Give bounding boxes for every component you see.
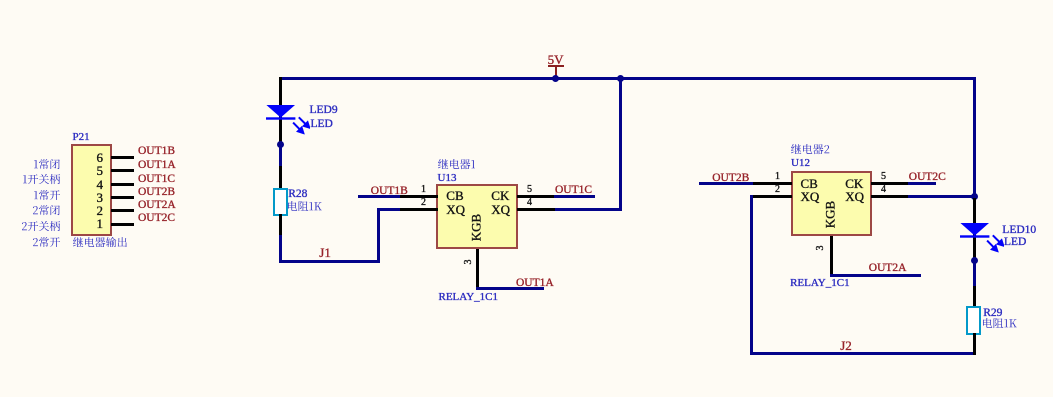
port 1常闭	[34, 159, 60, 170]
U12 comment 继电器2	[791, 144, 830, 155]
U12 pin name XQ right	[845, 190, 864, 203]
U12 pin 2 lead	[753, 195, 791, 198]
junction node rail-U13pin4	[617, 75, 624, 82]
relay U12 body	[791, 171, 872, 236]
wire net OUT2A	[830, 274, 922, 277]
net label 5V	[548, 53, 564, 66]
P21 pin 5 lead	[111, 169, 134, 172]
U12 pin 4 lead	[871, 195, 908, 198]
P21 comment 继电器输出	[73, 237, 127, 248]
R28 pin 2 lead	[279, 214, 282, 237]
P21 pin 2 number	[43, 204, 103, 217]
P21 pin 4 number	[43, 178, 103, 191]
U13 pin 5 number	[472, 185, 532, 195]
P21 pin 4 lead	[111, 183, 134, 186]
net J2 label	[840, 339, 852, 352]
wire net OUT1B	[358, 195, 401, 198]
wire LED9 to R28	[279, 146, 282, 167]
net label OUT2B	[712, 173, 749, 185]
U12 pin name KGB	[823, 192, 836, 238]
U13 pin 2 number	[366, 198, 426, 208]
wire R28 down	[279, 235, 282, 263]
resistor R28	[273, 188, 288, 217]
R28 designator	[288, 189, 307, 201]
LED10 designator	[1002, 225, 1036, 237]
port 1开关柄	[23, 174, 61, 185]
wire LED10 to R29	[973, 262, 976, 288]
U12 pin 2 number	[720, 185, 780, 195]
junction at 5V	[552, 75, 559, 82]
U13 pin name CK	[491, 189, 509, 202]
wire rail to U13 pin4 vertical	[619, 77, 622, 211]
P21 pin 6 lead	[111, 156, 134, 159]
U12 pin 5 number	[826, 172, 886, 182]
R29 pin 2 lead	[973, 333, 976, 355]
wire net OUT2C	[908, 182, 936, 185]
wire J1 horizontal	[279, 260, 380, 263]
relay U13 body	[436, 184, 517, 250]
connector P21 body	[71, 144, 112, 236]
U13 pin name CB	[446, 189, 463, 202]
P21 pin 1 lead	[111, 223, 134, 226]
wire net OUT1A	[476, 287, 544, 290]
R29 value 电阻1K	[983, 318, 1017, 329]
U13 designator	[438, 173, 457, 184]
P21 pin 3 number	[43, 191, 103, 204]
net label OUT1A at P21	[138, 160, 176, 172]
U13 pin 4 number	[472, 198, 532, 208]
U12 pin 1 number	[720, 172, 780, 182]
net label OUT2A at P21	[138, 200, 176, 212]
junction U12 pin4 node	[971, 193, 978, 200]
net label OUT2C	[909, 172, 946, 184]
U13 comment 继电器1	[438, 159, 476, 170]
net label OUT1C at P21	[138, 174, 175, 186]
U13 pin name XQ left	[446, 203, 465, 216]
U13 pin 1 number	[366, 185, 426, 195]
U13 net RELAY_1C1	[439, 292, 499, 303]
glyph outline definitions for CJK text (no external fonts)	[0, 0, 1, 1]
wire J2 vertical	[750, 195, 753, 355]
wire J2 horizontal	[750, 352, 975, 355]
net label OUT2A	[869, 263, 907, 275]
net label OUT1B	[371, 186, 408, 198]
wire J1 vertical	[377, 208, 380, 263]
U12 pin 4 number	[826, 185, 886, 195]
P21 pin 5 number	[43, 164, 103, 177]
wire J1 to U13 pin2	[377, 208, 401, 211]
U13 pin 4 lead	[517, 208, 555, 211]
port 2常开	[33, 237, 61, 248]
wire net OUT2B	[699, 182, 754, 185]
net label OUT2C at P21	[138, 213, 175, 225]
R29 designator	[983, 308, 1002, 320]
wire net OUT1C	[554, 195, 595, 198]
LED10 anode lead	[973, 198, 976, 260]
U13 pin 5 lead	[517, 195, 555, 198]
LED9 value LED	[311, 119, 333, 131]
port 2常闭	[33, 205, 60, 216]
wire to U13 pin4 horizontal	[554, 208, 622, 211]
R29 pin 1 lead	[973, 286, 976, 308]
resistor R29	[966, 306, 981, 335]
U13 pin name KGB	[469, 204, 482, 250]
U12 pin 5 lead	[871, 182, 908, 185]
U13 pin name XQ right	[491, 203, 510, 216]
U12 pin 3 number	[816, 225, 826, 271]
U12 pin name CK	[845, 177, 863, 190]
U13 pin 3 lead	[476, 249, 479, 290]
R28 pin 1 lead	[279, 166, 282, 190]
U13 pin 2 lead	[400, 208, 438, 211]
U12 designator	[791, 158, 810, 169]
U12 pin name CB	[801, 177, 818, 190]
net label OUT1A	[516, 278, 554, 290]
power symbol 5V	[548, 65, 564, 67]
P21 pin 1 number	[43, 217, 103, 230]
junction below LED10	[971, 257, 978, 264]
P21 pin 6 number	[43, 151, 103, 164]
LED9 designator	[310, 105, 338, 117]
junction below LED9	[277, 141, 284, 148]
port 2开关柄	[22, 221, 61, 232]
U12 net RELAY_1C1	[790, 278, 850, 289]
P21 pin 3 lead	[111, 196, 134, 199]
P21 pin 2 lead	[111, 209, 134, 212]
LED10 value LED	[1004, 237, 1026, 249]
wire 5V rail	[281, 77, 976, 80]
wire U12 pin4 to LED10 node	[908, 195, 976, 198]
LED10 diode symbol	[956, 218, 1004, 254]
port 1常开	[34, 190, 61, 201]
U12 pin 3 lead	[830, 236, 833, 277]
net label OUT2B at P21	[138, 187, 175, 199]
net label OUT1B at P21	[138, 146, 175, 158]
U12 pin name XQ left	[801, 190, 820, 203]
wire rail right down	[973, 77, 976, 198]
U12 pin 1 lead	[753, 182, 792, 185]
P21 designator	[73, 132, 90, 143]
R28 value 电阻1K	[288, 201, 322, 212]
U13 pin 1 lead	[400, 195, 438, 198]
wire LED9 anode	[279, 77, 282, 145]
net label OUT1C	[555, 185, 592, 197]
net J1 label	[319, 246, 331, 259]
U13 pin 3 number	[464, 239, 474, 285]
LED9 diode symbol	[262, 100, 310, 136]
